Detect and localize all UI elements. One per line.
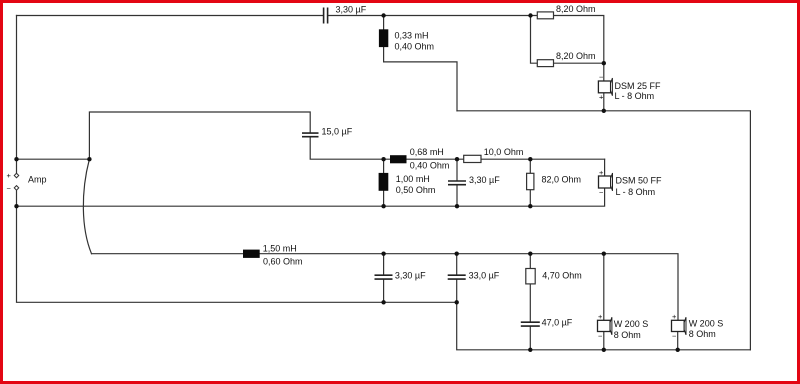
node resistor pair right xyxy=(602,61,606,65)
node tweeter network top xyxy=(381,13,385,17)
wire capacitor C6 bottom lead xyxy=(529,327,531,350)
svg-text:+: + xyxy=(598,312,603,321)
node Amp minus xyxy=(14,204,18,208)
node return rail C4 xyxy=(381,300,385,304)
svg-text:82,0 Ohm: 82,0 Ohm xyxy=(542,175,582,185)
wire woofer SP3 to bottom rail xyxy=(603,332,605,350)
node mid rail L4 xyxy=(381,157,385,161)
capacitor C4 3,30 uF xyxy=(375,275,393,279)
wire woofer feed rail xyxy=(92,254,679,321)
speaker SP2 DSM 50 FF xyxy=(599,168,613,197)
wire resistor R1 to right corner down xyxy=(554,16,604,64)
wire woofer SP4 to bottom rail xyxy=(677,332,679,350)
wire capacitor C5 bottom lead xyxy=(456,280,458,302)
svg-text:10,0 Ohm: 10,0 Ohm xyxy=(484,147,524,157)
svg-text:−: − xyxy=(598,332,603,341)
wire top rail from left corner to capacitor C1 xyxy=(17,15,324,17)
wire capacitor C4 top lead xyxy=(383,254,385,275)
wire woofer SP3 drop xyxy=(603,254,605,321)
node Amp plus left xyxy=(14,157,18,161)
wire capacitor C4 bottom lead xyxy=(383,280,385,302)
wire tweeter SP1 to return rail xyxy=(603,93,605,111)
wire Amp plus feed xyxy=(17,158,90,160)
svg-text:DSM 25 FF: DSM 25 FF xyxy=(615,81,662,91)
node feed rail SP3 xyxy=(602,252,606,256)
svg-text:0,40 Ohm: 0,40 Ohm xyxy=(395,42,435,52)
svg-text:+: + xyxy=(599,168,604,177)
svg-text:0,68 mH: 0,68 mH xyxy=(410,147,444,157)
wire mid speaker SP2 drop xyxy=(604,159,606,176)
capacitor C5 33,0 uF xyxy=(448,275,466,279)
wire inductor L4 branch to mid return rail xyxy=(383,159,385,173)
capacitor C3 3,30 uF xyxy=(448,181,466,185)
svg-text:1,00 mH: 1,00 mH xyxy=(396,174,430,184)
node bottom rail C6 xyxy=(528,348,532,352)
svg-text:−: − xyxy=(7,184,12,193)
wire mid speaker SP2 to return xyxy=(17,188,605,206)
svg-text:8 Ohm: 8 Ohm xyxy=(614,330,641,340)
wire curved woofer feed from Amp node xyxy=(83,159,91,254)
wire node to tweeter SP1 xyxy=(603,63,605,81)
wire resistor R4 top lead xyxy=(529,159,531,173)
wire top rail from capacitor C1 to resistor node xyxy=(328,15,538,17)
wire inductor L1 branch down and across to tweeter return rail xyxy=(384,16,457,111)
svg-text:+: + xyxy=(7,171,12,180)
resistor R2 8,20 Ohm xyxy=(537,60,553,67)
wire resistor R2 to node xyxy=(554,62,604,64)
inductor L3 1,50 mH xyxy=(243,250,260,258)
speaker SP3 W 200 S xyxy=(598,312,612,341)
resistor R4 82,0 Ohm xyxy=(527,173,534,189)
svg-text:L - 8 Ohm: L - 8 Ohm xyxy=(615,91,655,101)
svg-text:−: − xyxy=(599,73,604,82)
inductor L2 0,68 mH xyxy=(390,155,407,163)
node feed rail C4 xyxy=(381,252,385,256)
resistor R1 8,20 Ohm xyxy=(537,12,553,19)
wire resistor R4 bottom lead xyxy=(529,190,531,207)
svg-text:1,50 mH: 1,50 mH xyxy=(263,244,297,254)
wire capacitor C5 top lead xyxy=(456,254,458,275)
svg-text:8,20 Ohm: 8,20 Ohm xyxy=(556,51,596,61)
node feed rail C5 xyxy=(455,252,459,256)
wire capacitor C2 to mid rail xyxy=(310,137,604,159)
svg-text:0,33 mH: 0,33 mH xyxy=(395,31,429,41)
wire left vertical from - terminal to bottom corner xyxy=(17,190,457,302)
svg-text:0,60 Ohm: 0,60 Ohm xyxy=(263,257,303,267)
wire riser to capacitor C2 15,0 uF xyxy=(89,112,310,159)
svg-text:+: + xyxy=(599,93,604,102)
inductor L1 0,33 mH xyxy=(379,29,388,47)
resistor R5 4,70 Ohm xyxy=(526,269,535,284)
svg-text:0,50 Ohm: 0,50 Ohm xyxy=(396,185,436,195)
capacitor C6 47,0 uF xyxy=(521,322,540,326)
wire left vertical from top rail to + terminal xyxy=(16,16,18,174)
Amp terminal minus xyxy=(14,186,19,191)
wire resistor R5 top lead xyxy=(529,254,531,269)
speaker SP4 W 200 S xyxy=(672,312,687,341)
svg-text:0,40 Ohm: 0,40 Ohm xyxy=(410,161,450,171)
node mid return L4 xyxy=(381,204,385,208)
wire tweeter return rail and right riser down to bottom rail xyxy=(457,111,750,350)
svg-text:3,30 µF: 3,30 µF xyxy=(395,271,426,281)
wire inductor L4 bottom lead xyxy=(383,191,385,206)
wire capacitor C3 top lead xyxy=(456,159,458,180)
node tweeter resistor junction xyxy=(528,13,532,17)
svg-text:33,0 µF: 33,0 µF xyxy=(469,271,500,281)
node mid return C3 xyxy=(455,204,459,208)
wire resistor R2 branch xyxy=(531,16,538,64)
svg-text:3,30 µF: 3,30 µF xyxy=(336,5,367,15)
node Amp plus right xyxy=(87,157,91,161)
svg-text:4,70 Ohm: 4,70 Ohm xyxy=(542,271,582,281)
Amp terminal plus xyxy=(14,173,19,178)
wire capacitor C3 bottom lead xyxy=(456,186,458,207)
node mid rail R4 xyxy=(528,157,532,161)
svg-text:−: − xyxy=(599,188,604,197)
svg-text:15,0 µF: 15,0 µF xyxy=(322,127,353,137)
capacitor C2 15,0 uF xyxy=(302,133,319,137)
svg-text:−: − xyxy=(672,332,677,341)
wire resistor R5 to capacitor C6 xyxy=(529,284,531,322)
svg-text:W 200 S: W 200 S xyxy=(614,319,649,329)
node tweeter bottom xyxy=(602,109,606,113)
node bottom rail SP3 xyxy=(602,348,606,352)
wire woofer return drop xyxy=(457,302,751,350)
svg-text:8 Ohm: 8 Ohm xyxy=(689,329,716,339)
node return rail C5 xyxy=(455,300,459,304)
node bottom rail SP4 xyxy=(676,348,680,352)
capacitor C1 3,30 uF xyxy=(324,8,328,24)
svg-text:W 200 S: W 200 S xyxy=(689,318,724,328)
svg-text:3,30 µF: 3,30 µF xyxy=(469,175,500,185)
speaker SP1 DSM 25 FF xyxy=(598,73,612,102)
node mid return R4 xyxy=(528,204,532,208)
resistor R3 10,0 Ohm xyxy=(464,155,481,162)
svg-text:+: + xyxy=(672,312,677,321)
svg-text:DSM 50 FF: DSM 50 FF xyxy=(616,175,663,185)
inductor L4 1,00 mH xyxy=(379,173,389,191)
svg-text:47,0 µF: 47,0 µF xyxy=(542,318,573,328)
svg-text:Amp: Amp xyxy=(28,175,47,185)
node feed rail R5 xyxy=(528,252,532,256)
svg-text:L - 8 Ohm: L - 8 Ohm xyxy=(616,187,656,197)
node mid rail C3 xyxy=(455,157,459,161)
svg-text:8,20 Ohm: 8,20 Ohm xyxy=(556,4,596,14)
